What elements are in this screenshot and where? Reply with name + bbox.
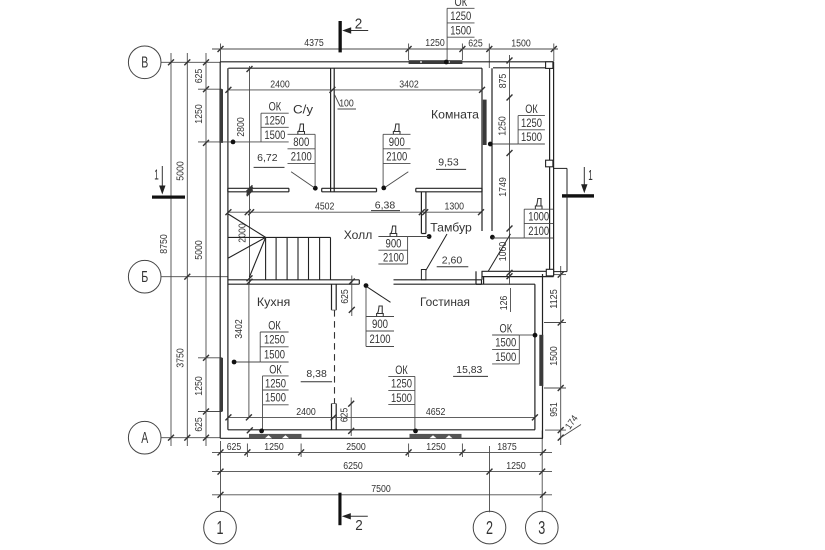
- svg-text:Д: Д: [535, 196, 544, 210]
- svg-text:Тамбур: Тамбур: [430, 220, 472, 234]
- svg-text:1500: 1500: [265, 391, 286, 405]
- svg-text:1250: 1250: [194, 104, 205, 124]
- svg-text:1: 1: [588, 167, 593, 184]
- svg-text:1250: 1250: [264, 333, 285, 347]
- svg-text:900: 900: [372, 317, 388, 331]
- svg-text:ОК: ОК: [500, 322, 513, 336]
- svg-text:6,72: 6,72: [257, 153, 278, 164]
- svg-text:2: 2: [355, 16, 363, 33]
- svg-text:1500: 1500: [264, 348, 285, 362]
- svg-text:Д: Д: [393, 121, 402, 135]
- svg-text:ОК: ОК: [455, 0, 468, 9]
- svg-text:А: А: [141, 430, 148, 447]
- svg-text:В: В: [141, 55, 148, 72]
- svg-text:100: 100: [339, 98, 354, 109]
- svg-text:3: 3: [538, 518, 545, 538]
- svg-text:3402: 3402: [234, 319, 245, 339]
- svg-text:1500: 1500: [264, 128, 285, 142]
- svg-text:1125: 1125: [549, 289, 560, 309]
- svg-text:625: 625: [468, 39, 483, 50]
- svg-text:1250: 1250: [498, 116, 509, 136]
- svg-text:1250: 1250: [425, 38, 445, 49]
- svg-text:1500: 1500: [495, 336, 516, 350]
- svg-text:1500: 1500: [495, 350, 516, 364]
- svg-text:1250: 1250: [264, 442, 284, 453]
- svg-text:900: 900: [389, 135, 405, 149]
- svg-text:2100: 2100: [386, 149, 407, 163]
- svg-text:800: 800: [293, 135, 309, 149]
- svg-text:875: 875: [498, 73, 509, 88]
- svg-text:5000: 5000: [175, 161, 186, 181]
- svg-text:Комната: Комната: [431, 107, 479, 121]
- svg-text:4375: 4375: [304, 38, 324, 49]
- svg-text:625: 625: [340, 289, 351, 304]
- svg-text:4652: 4652: [426, 407, 446, 418]
- svg-text:1: 1: [217, 518, 224, 538]
- svg-text:1250: 1250: [521, 116, 542, 130]
- svg-text:1300: 1300: [445, 202, 465, 213]
- svg-text:15,83: 15,83: [456, 365, 482, 376]
- svg-text:900: 900: [386, 237, 402, 251]
- svg-text:1500: 1500: [391, 391, 412, 405]
- svg-text:Д: Д: [297, 121, 306, 135]
- svg-text:1500: 1500: [511, 39, 531, 50]
- svg-text:1250: 1250: [391, 377, 412, 391]
- svg-text:625: 625: [227, 442, 242, 453]
- svg-text:6,38: 6,38: [375, 200, 396, 211]
- svg-text:6250: 6250: [343, 461, 363, 472]
- svg-text:1500: 1500: [521, 130, 542, 144]
- svg-text:2,60: 2,60: [442, 255, 463, 266]
- svg-text:9,53: 9,53: [438, 158, 459, 169]
- svg-text:1: 1: [154, 167, 159, 184]
- svg-text:2100: 2100: [291, 149, 312, 163]
- svg-text:1875: 1875: [497, 442, 517, 453]
- svg-text:2500: 2500: [346, 442, 366, 453]
- svg-text:2100: 2100: [370, 332, 391, 346]
- svg-text:7500: 7500: [371, 484, 391, 495]
- svg-text:1500: 1500: [549, 346, 560, 366]
- svg-text:2100: 2100: [383, 250, 404, 264]
- svg-text:Кухня: Кухня: [257, 295, 291, 309]
- svg-text:8750: 8750: [159, 234, 170, 254]
- svg-text:Б: Б: [141, 269, 148, 286]
- svg-text:1000: 1000: [528, 210, 549, 224]
- svg-text:2400: 2400: [270, 79, 290, 90]
- svg-text:3750: 3750: [175, 348, 186, 368]
- svg-text:2: 2: [355, 517, 363, 534]
- svg-text:С/у: С/у: [293, 102, 314, 116]
- svg-text:ОК: ОК: [395, 363, 408, 377]
- svg-text:1250: 1250: [194, 376, 205, 396]
- svg-text:1060: 1060: [498, 241, 509, 261]
- svg-text:8,38: 8,38: [306, 369, 327, 380]
- svg-text:2100: 2100: [528, 224, 549, 238]
- svg-text:ОК: ОК: [525, 102, 538, 116]
- svg-text:625: 625: [339, 407, 350, 422]
- svg-text:1250: 1250: [450, 9, 471, 23]
- svg-text:4502: 4502: [315, 202, 335, 213]
- svg-text:1749: 1749: [498, 177, 509, 197]
- svg-text:2: 2: [486, 518, 493, 538]
- svg-text:1250: 1250: [426, 442, 446, 453]
- svg-text:625: 625: [194, 68, 205, 83]
- svg-text:Д: Д: [390, 223, 399, 237]
- svg-text:1250: 1250: [265, 376, 286, 390]
- svg-text:625: 625: [194, 417, 205, 432]
- svg-text:5000: 5000: [194, 240, 205, 260]
- svg-text:951: 951: [549, 402, 560, 417]
- svg-text:1250: 1250: [506, 461, 526, 472]
- svg-text:ОК: ОК: [268, 319, 281, 333]
- svg-text:126: 126: [499, 295, 510, 310]
- svg-text:Холл: Холл: [344, 228, 373, 242]
- svg-text:Гостиная: Гостиная: [420, 295, 470, 309]
- svg-text:ОК: ОК: [269, 362, 282, 376]
- svg-text:1250: 1250: [264, 114, 285, 128]
- svg-text:2400: 2400: [296, 407, 316, 418]
- svg-text:3402: 3402: [399, 79, 419, 90]
- svg-text:2800: 2800: [236, 117, 247, 137]
- svg-text:1500: 1500: [450, 23, 471, 37]
- svg-text:Д: Д: [376, 303, 385, 317]
- svg-text:ОК: ОК: [269, 100, 282, 114]
